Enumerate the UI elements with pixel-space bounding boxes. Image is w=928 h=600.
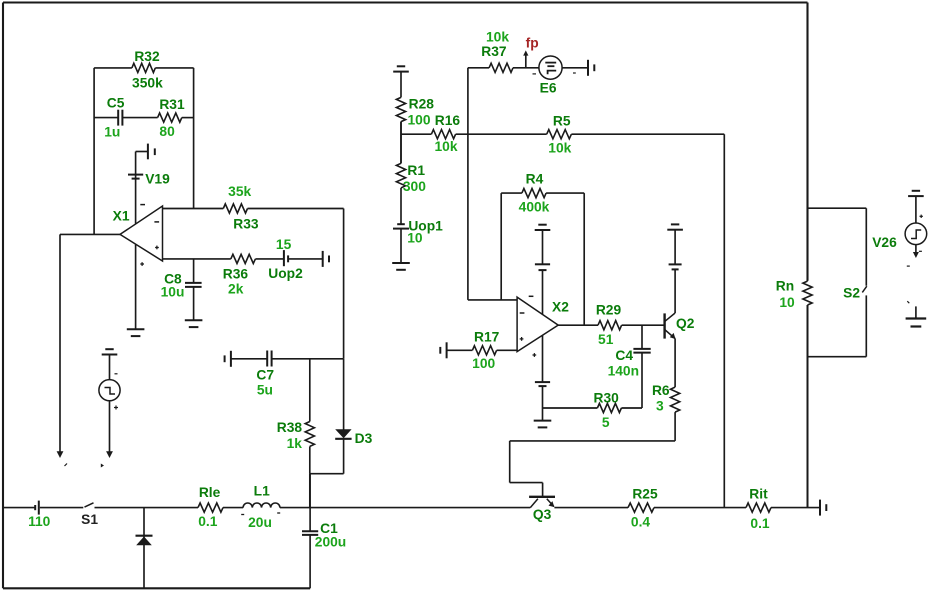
svg-text:5u: 5u [257, 382, 273, 397]
wire E6 to flag [562, 67, 588, 69]
X1 output node mark [65, 464, 68, 467]
svg-text:V19: V19 [145, 172, 170, 187]
svg-text:R16: R16 [435, 113, 461, 128]
resistor R6 [671, 387, 680, 412]
svg-text:R28: R28 [409, 97, 435, 112]
wire Uop1 to ground [400, 229, 402, 263]
svg-text:400k: 400k [519, 199, 550, 214]
node R28-R16 [400, 122, 402, 164]
resistor R30 [597, 403, 621, 412]
svg-text:C1: C1 [320, 521, 338, 536]
wire X2 V- upper lead [542, 336, 544, 383]
wire R32 row right [155, 67, 193, 69]
wire D3 to R38 link [310, 473, 344, 475]
wire feedback right vertical [193, 68, 195, 209]
wire R36 to Uop2 [255, 258, 284, 260]
svg-text:Q3: Q3 [533, 507, 552, 522]
wire bottom return [3, 587, 310, 589]
svg-text:140n: 140n [608, 364, 639, 379]
svg-text:10k: 10k [486, 30, 509, 45]
wire V19 to flag [135, 152, 137, 175]
wire R4 right vertical [583, 193, 585, 325]
svg-text:R38: R38 [277, 420, 303, 435]
wire X1 output [60, 233, 120, 235]
terminal flag V19 [147, 144, 149, 160]
source E6 circle [539, 56, 562, 79]
terminal flag above X2 [538, 224, 546, 226]
wire R16 to R5 [456, 133, 547, 135]
wire R17 to X2 [497, 349, 517, 351]
wire R37 to E6 [513, 67, 539, 69]
transistor Q3 [529, 496, 555, 498]
battery Uop2 [283, 250, 285, 266]
wire Q3 base branch vertical [509, 441, 511, 483]
battery Uop1 [397, 223, 405, 225]
ground below C8 [185, 319, 203, 321]
wire bus Q3 to R25 [554, 507, 628, 509]
wire C7 to corner [272, 358, 344, 360]
wire X1 bottom input [163, 258, 231, 260]
svg-text:X1: X1 [113, 208, 130, 223]
wire corner to R37 [468, 67, 489, 69]
wire Uop2 to flag [288, 258, 323, 260]
ground below V26 [906, 317, 927, 319]
svg-text:R4: R4 [526, 172, 544, 187]
ground below X2 [534, 420, 552, 422]
svg-text:Q2: Q2 [676, 316, 695, 331]
X1 output arrow [57, 451, 64, 458]
wire C4 top lead [641, 325, 643, 349]
ground below Uop1 [392, 262, 410, 264]
terminal flag right of Rit [819, 500, 821, 516]
wire Q3 base branch horizontal [510, 482, 543, 484]
wire bus battery to S1 [40, 507, 84, 509]
node fp arrow [525, 54, 527, 68]
V26 polarity mark minus [919, 250, 922, 252]
terminal flag above V26 [912, 190, 920, 192]
E6 polarity marks [533, 73, 537, 75]
wire Q2 collector lead [674, 269, 676, 313]
capacitor C7 [266, 351, 268, 367]
resistor R5 [547, 130, 572, 139]
resistor R38 [305, 422, 314, 447]
capacitor C4 [633, 348, 650, 350]
svg-text:10k: 10k [548, 140, 571, 155]
svg-text:10: 10 [779, 295, 795, 310]
svg-text:15: 15 [276, 237, 292, 252]
wire R30 row [543, 407, 598, 409]
svg-text:110: 110 [28, 514, 51, 529]
source V26 waveform glyph [911, 230, 921, 239]
wire bus Rle to L1 [223, 507, 243, 509]
resistor R4 [522, 189, 546, 198]
wire X1 top input [163, 208, 224, 210]
wire R33 corner down [343, 209, 345, 359]
svg-text:R36: R36 [223, 266, 249, 281]
op-amp X2 triangle [517, 297, 558, 352]
svg-text:E6: E6 [540, 81, 557, 96]
wire S2 upper vertical [865, 208, 867, 286]
source V20 waveform glyph [105, 388, 116, 395]
wire bus R25 to Rit [654, 507, 746, 509]
wire R38 top lead [309, 359, 311, 422]
wire X2 V+ lower lead [542, 270, 544, 314]
source V20 circle [99, 380, 120, 401]
wire flag to C7 [231, 358, 267, 360]
svg-text:51: 51 [598, 332, 614, 347]
wire R28 top lead [400, 72, 402, 98]
svg-text:R29: R29 [596, 302, 622, 317]
resistor R36 [231, 254, 256, 263]
svg-text:V26: V26 [872, 235, 897, 250]
wire R38 bottom lead [309, 446, 311, 473]
svg-text:1k: 1k [287, 436, 303, 451]
wire R1 to Uop1 [400, 188, 402, 224]
wire R38 branch to bus [309, 474, 311, 508]
resistor R37 [489, 63, 513, 72]
wire flag to R17 [447, 349, 473, 351]
V26 polarity mark plus [920, 215, 923, 217]
svg-text:20u: 20u [248, 515, 272, 530]
wire Q2 emitter lead [674, 339, 676, 388]
switch S1 [85, 503, 94, 507]
wire C8 top [193, 259, 195, 283]
svg-text:0.4: 0.4 [631, 514, 651, 529]
svg-text:10k: 10k [434, 139, 457, 154]
wire right vertical to Rn [807, 280, 809, 283]
wire Rn bottom to bus [807, 305, 809, 508]
source V26 circle [905, 223, 927, 245]
source E6 battery glyph [545, 62, 556, 64]
svg-text:fp: fp [526, 36, 539, 51]
V26 ground tick [907, 301, 909, 303]
wire R4 row [501, 192, 522, 194]
wire X2 V+ upper lead [542, 230, 544, 264]
svg-text:R30: R30 [594, 390, 620, 405]
source V20 polarity marks [115, 373, 118, 375]
svg-text:R25: R25 [632, 486, 658, 501]
svg-text:C4: C4 [615, 348, 633, 363]
svg-text:C7: C7 [256, 368, 274, 383]
terminal flag left of C7 [230, 351, 232, 367]
wire C1 bottom [309, 535, 311, 588]
wire X2 V- lower lead [542, 386, 544, 421]
wire V26 ground lead [915, 306, 917, 318]
svg-text:3: 3 [656, 399, 664, 414]
wire right outer upper [806, 3, 808, 281]
resistor R32 [132, 63, 155, 72]
capacitor C8 [185, 282, 202, 284]
battery 110 [38, 501, 40, 515]
resistor R29 [598, 321, 622, 330]
resistor Rit [746, 503, 771, 512]
wire X1 V- lead [135, 245, 137, 330]
svg-text:R1: R1 [407, 163, 425, 178]
svg-text:0.1: 0.1 [198, 514, 218, 529]
svg-text:2k: 2k [228, 282, 244, 297]
resistor R16 [431, 130, 455, 139]
capacitor C5 [117, 110, 119, 126]
wire C8 bottom [193, 287, 195, 320]
svg-text:R17: R17 [474, 329, 500, 344]
terminal flag source V [105, 348, 113, 350]
diode D3 [335, 429, 351, 438]
resistor R33 [223, 204, 247, 213]
resistor R28 [396, 97, 405, 121]
svg-text:200u: 200u [315, 535, 346, 550]
wire inverting input vertical [467, 68, 469, 300]
wire R5 corner down [723, 134, 725, 507]
terminal flag Uop2 [322, 251, 324, 267]
svg-text:300: 300 [403, 179, 426, 194]
wire R4 left vertical [500, 193, 502, 300]
wire X2 output [558, 324, 598, 326]
resistor R25 [628, 503, 654, 512]
L1 polarity marks [241, 514, 244, 516]
terminal flag above R28 [397, 65, 405, 67]
resistor R1 [396, 163, 405, 188]
wire feedback left vertical [93, 68, 95, 235]
wire source top lead [109, 355, 111, 380]
svg-text:R32: R32 [134, 49, 160, 64]
wire R33 to corner [248, 208, 344, 210]
wire bus Rit to flag [771, 507, 820, 509]
wire R28 to R1 [400, 122, 402, 164]
op-amp X1 pin marks [140, 204, 145, 206]
resistor Rn [803, 281, 812, 305]
svg-text:C5: C5 [107, 95, 125, 110]
wire V26 bottom lead [915, 245, 917, 254]
wire X1 output down [59, 234, 61, 453]
wire left outer [2, 3, 4, 589]
wire R6 to Q3 horizontal [510, 440, 675, 442]
svg-text:S1: S1 [81, 512, 98, 527]
wire R5 to right corner [571, 133, 724, 135]
svg-text:80: 80 [159, 124, 175, 139]
wire R29 to Q2 base [622, 324, 665, 326]
svg-text:R37: R37 [481, 44, 507, 59]
wire Q2 supply lead [674, 230, 676, 265]
svg-text:10u: 10u [161, 284, 185, 299]
wire R31 row right [182, 117, 194, 119]
wire S2 top branch [808, 207, 867, 209]
inductor L1 [243, 503, 280, 508]
svg-text:R31: R31 [159, 97, 185, 112]
wire C1 branch top [309, 474, 311, 531]
svg-text:Rle: Rle [199, 485, 221, 500]
svg-text:X2: X2 [552, 300, 569, 315]
svg-text:100: 100 [472, 356, 495, 371]
terminal flag above Q2 [671, 223, 679, 225]
source output arrow [106, 451, 113, 458]
op-amp X2 pin marks [529, 295, 534, 297]
op-amp X1 triangle [120, 206, 163, 261]
wire S2 lower vertical [865, 295, 867, 356]
battery above X2 [535, 263, 550, 265]
terminal flag left of R17 [446, 342, 448, 358]
wire top outer [3, 1, 808, 3]
wire X1 V+ lead [135, 175, 137, 224]
wire V26 top lead [915, 197, 917, 224]
diode D (freewheel) [136, 535, 153, 537]
wire bus left segment [3, 507, 35, 509]
svg-text:5: 5 [602, 415, 610, 430]
svg-text:35k: 35k [228, 184, 251, 199]
wire R28 node to R16 [401, 133, 431, 135]
transistor Q2 [663, 313, 665, 338]
wire C4 bottom lead [641, 353, 643, 408]
svg-text:S2: S2 [843, 285, 860, 300]
battery V19 [128, 174, 143, 176]
svg-text:Uop2: Uop2 [268, 266, 303, 281]
wire Q3 base lead [542, 483, 544, 497]
svg-text:100: 100 [407, 112, 430, 127]
svg-text:10: 10 [407, 230, 423, 245]
wire D3 bottom lead [343, 439, 345, 474]
wire D3 top lead [343, 359, 345, 430]
source node mark [101, 464, 104, 468]
svg-text:0.1: 0.1 [750, 516, 770, 531]
svg-text:R5: R5 [553, 114, 571, 129]
wire C5 to R31 [122, 117, 157, 119]
svg-text:D3: D3 [355, 431, 373, 446]
V26 bottom arrow [913, 252, 919, 258]
svg-text:R33: R33 [233, 217, 259, 232]
terminal flag E6 out [587, 60, 589, 76]
wire S2 bottom branch [808, 356, 867, 358]
resistor Rle [198, 503, 223, 512]
wire X2 inverting input [468, 299, 517, 301]
switch S2 blade [862, 286, 867, 292]
wire diode branch vertical [143, 508, 145, 589]
wire R6 bottom lead [674, 412, 676, 441]
wire bus L1 to Q3 [280, 507, 530, 509]
svg-text:1u: 1u [104, 124, 120, 139]
svg-text:Rit: Rit [749, 486, 768, 501]
svg-text:Rn: Rn [776, 278, 794, 293]
svg-text:L1: L1 [254, 483, 270, 498]
svg-text:350k: 350k [132, 75, 163, 90]
capacitor C1 [302, 530, 318, 532]
resistor R31 [158, 113, 182, 122]
svg-text:R6: R6 [652, 383, 670, 398]
battery below X2 [535, 381, 550, 383]
wire bus S1 to Rle [95, 507, 199, 509]
wire R32 row left [94, 67, 132, 69]
wire C5 row left [94, 117, 118, 119]
resistor R17 [472, 346, 496, 355]
ground below X1 [127, 328, 145, 330]
battery above Q2 [669, 263, 682, 265]
wire source bottom lead [109, 401, 111, 454]
